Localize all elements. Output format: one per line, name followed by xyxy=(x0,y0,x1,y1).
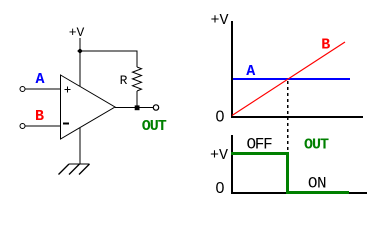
wire node to output terminal xyxy=(137,107,153,109)
resistor R xyxy=(133,67,142,91)
graph1 x-axis xyxy=(231,116,363,118)
svg-text:+V: +V xyxy=(69,25,85,40)
graph1 dashed line at crossing xyxy=(287,81,289,152)
graph1 y-axis xyxy=(231,21,233,118)
svg-text:A: A xyxy=(246,63,255,80)
wire op-amp output to node xyxy=(115,107,137,109)
svg-text:OUT: OUT xyxy=(142,118,167,135)
graph1 input A line xyxy=(233,78,350,80)
junction output node xyxy=(135,105,140,110)
terminal input B xyxy=(20,124,25,129)
wire input A to op-amp xyxy=(25,88,60,90)
ground xyxy=(59,164,90,175)
junction at +V branch xyxy=(77,48,83,54)
graph2 x-axis xyxy=(231,192,367,194)
svg-text:0: 0 xyxy=(216,108,225,125)
op-amp inverting - pin mark xyxy=(63,123,69,125)
graph1 input B ramp line xyxy=(232,42,345,116)
svg-text:OUT: OUT xyxy=(304,137,329,154)
wire input B to op-amp xyxy=(25,125,60,127)
svg-text:R: R xyxy=(120,73,128,88)
graph2 output falling edge green line xyxy=(286,152,289,194)
svg-text:ON: ON xyxy=(308,174,326,192)
op-amp non-inverting + pin mark xyxy=(65,87,71,93)
svg-text:B: B xyxy=(35,108,44,125)
wire resistor bottom to output node xyxy=(136,91,138,107)
svg-text:OFF: OFF xyxy=(247,136,273,154)
svg-text:+V: +V xyxy=(210,147,228,164)
wire +V down to op-amp xyxy=(79,38,81,86)
svg-text:0: 0 xyxy=(216,180,225,197)
wire op-amp to ground xyxy=(79,128,81,164)
svg-text:+V: +V xyxy=(210,12,228,29)
graph2 output high level green line xyxy=(231,152,289,155)
svg-text:A: A xyxy=(35,71,44,88)
wire +V branch to resistor top xyxy=(80,51,137,67)
graph2 y-axis xyxy=(231,135,233,194)
graph2 output low level green line xyxy=(286,191,349,194)
op-amp U1 triangle xyxy=(61,75,116,139)
terminal output xyxy=(153,105,158,110)
terminal input A xyxy=(20,87,25,92)
svg-text:B: B xyxy=(321,37,330,54)
